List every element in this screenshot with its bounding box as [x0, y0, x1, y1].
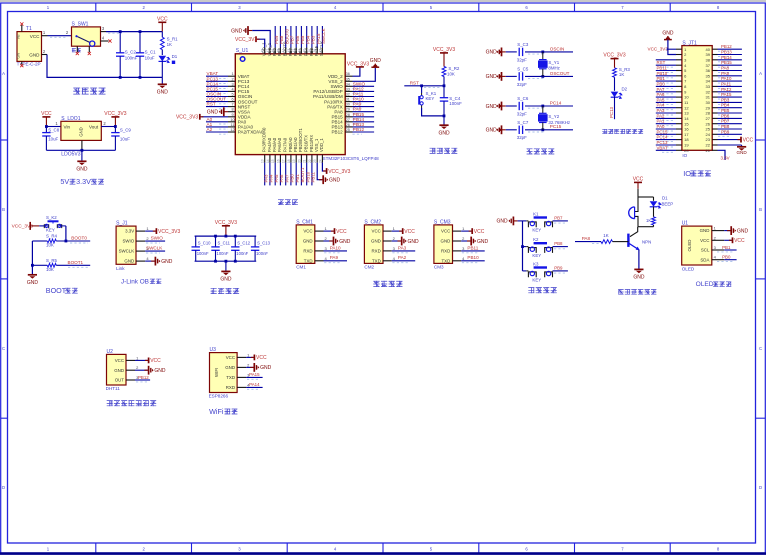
svg-text:T1: T1: [26, 26, 32, 32]
svg-text:VCC: VCC: [734, 238, 745, 244]
svg-text:WIFI: WIFI: [214, 368, 219, 377]
power port VCC_3V3 (bottom of U1): [323, 170, 327, 172]
svg-text:PA7/A0: PA7/A0: [283, 137, 288, 152]
svg-text:S_C10: S_C10: [198, 240, 211, 245]
U1 right pin (PB12): [345, 131, 352, 133]
svg-text:RST: RST: [657, 60, 666, 65]
svg-text:10uF: 10uF: [48, 137, 58, 142]
svg-text:VCC_3V3: VCC_3V3: [347, 61, 369, 67]
svg-text:VCC_3V3: VCC_3V3: [176, 115, 198, 121]
net label PB6 (JT1 right): [718, 117, 742, 119]
svg-text:PA4: PA4: [657, 103, 666, 108]
svg-text:PB5: PB5: [721, 108, 730, 113]
svg-text:PB8: PB8: [554, 241, 563, 246]
JT1 left pin 12: [676, 107, 682, 109]
U1 top pin (PB6): [295, 48, 297, 54]
svg-text:PB12: PB12: [331, 130, 343, 135]
svg-text:GND: GND: [231, 28, 243, 34]
svg-text:38: 38: [313, 49, 317, 53]
svg-text:GND: GND: [408, 239, 420, 245]
T1 bottom-left no-ERC cross: [21, 61, 23, 64]
svg-text:32: 32: [346, 93, 350, 97]
svg-text:A: A: [759, 71, 762, 76]
svg-text:PA3: PA3: [398, 245, 407, 250]
svg-text:D2: D2: [622, 86, 628, 91]
svg-text:VCC: VCC: [404, 229, 415, 235]
svg-text:KEY: KEY: [532, 227, 541, 232]
wire/net label PC14: [206, 85, 228, 87]
svg-text:PB14: PB14: [721, 55, 732, 60]
LED D2 (indicator): [614, 77, 616, 91]
svg-text:40: 40: [303, 49, 307, 53]
svg-text:PC14: PC14: [657, 135, 669, 140]
svg-text:47: 47: [266, 49, 270, 53]
svg-text:43: 43: [287, 49, 291, 53]
U1 bottom pin (PB0/A0): [290, 155, 292, 163]
svg-text:GND: GND: [154, 368, 166, 374]
filter top rail: [195, 235, 257, 237]
net label PA15 (JT1 right): [718, 96, 742, 98]
svg-text:PA11: PA11: [721, 81, 732, 86]
caption 串口电路: [373, 281, 379, 287]
U1 right pin (PB13): [345, 126, 352, 128]
wire OLED pin4 net label PB0: [724, 259, 736, 261]
svg-text:PB12: PB12: [353, 127, 365, 132]
svg-text:NPN: NPN: [642, 240, 651, 245]
wire with vertical net label PC13: [614, 97, 616, 120]
svg-text:GND: GND: [225, 365, 235, 370]
wire DHT11 pin1 to VCC: [135, 359, 148, 361]
JT1 right pin 23: [712, 139, 717, 141]
top/bottom zone separators and numbers: [95, 3, 97, 12]
svg-text:S_C12: S_C12: [237, 240, 250, 245]
svg-text:VCC: VCC: [150, 358, 161, 364]
U1 bottom pin (PB11/RX): [311, 155, 313, 163]
svg-text:GND: GND: [370, 58, 382, 64]
LED D1: [161, 50, 163, 55]
ground GND (crystal row PC14): [499, 105, 501, 107]
push button K2: [523, 246, 527, 248]
svg-text:PA6/A0: PA6/A0: [277, 137, 282, 152]
connector CM3 body: [434, 225, 453, 264]
JT1 left pin 3: [676, 59, 682, 61]
svg-text:VCC: VCC: [633, 176, 644, 182]
U1 top pin (PA15): [316, 48, 318, 54]
wire/net label OSCIN: [206, 96, 228, 98]
net label PA9 (JT1 right): [718, 75, 742, 77]
net label PB4 (JT1 right): [718, 107, 742, 109]
push button K3: [523, 270, 527, 272]
svg-text:GND: GND: [441, 239, 451, 244]
svg-text:PA12: PA12: [721, 87, 732, 92]
JT1 right pin 32: [712, 91, 717, 93]
wire CM1 pin4 net label PA9: [324, 260, 348, 262]
svg-text:S_J1: S_J1: [116, 221, 128, 227]
svg-text:GND: GND: [700, 228, 710, 233]
svg-text:PB7: PB7: [721, 119, 730, 124]
wire/net label A2: [206, 131, 228, 133]
ground GND power circuit: [158, 83, 167, 85]
svg-text:4: 4: [231, 87, 233, 91]
svg-text:S_C8: S_C8: [48, 127, 60, 132]
JT1 right pin 39: [712, 54, 717, 56]
wire CM3 pin4 net label PB10: [461, 260, 485, 262]
svg-text:32pF: 32pF: [517, 111, 527, 116]
JT1 left pin 13: [676, 112, 682, 114]
wire/net label PB11 (bottom): [311, 163, 313, 186]
JT1 right pin 27: [712, 117, 717, 119]
wire DHT11 pin2 to GND: [135, 369, 148, 371]
wire CM3 pin1 to VCC: [461, 230, 471, 232]
svg-text:K2: K2: [533, 237, 539, 242]
net label PB8 (JT1 right): [718, 128, 742, 130]
wire CM2 pin1 to VCC: [392, 230, 402, 232]
svg-text:25: 25: [706, 127, 711, 132]
svg-text:VCC: VCC: [336, 229, 347, 235]
svg-text:VCC: VCC: [303, 229, 312, 234]
wire VDD_3 to VCC_3V3 (bottom right of U1): [322, 163, 325, 171]
JT1 right pin 40: [712, 48, 717, 50]
svg-text:26: 26: [706, 121, 711, 126]
svg-text:S_R4: S_R4: [46, 233, 58, 238]
U1 right pin (PA12/USB/DP): [345, 90, 352, 92]
svg-text:12: 12: [230, 128, 234, 132]
wire/net label PA8 (right): [353, 111, 375, 113]
svg-text:VCC_3V3: VCC_3V3: [235, 37, 257, 43]
svg-text:VCC_3V3: VCC_3V3: [328, 169, 350, 175]
svg-text:29: 29: [346, 108, 350, 112]
wire/net label PC13: [206, 80, 228, 82]
JT1 left pin 5: [676, 70, 682, 72]
U1 left pin 5 (OSCIN): [228, 96, 235, 98]
U1 left pin 10 (PA0): [228, 121, 235, 123]
U1 right pin (PA10/RX): [345, 101, 352, 103]
power port VCC_3V3 (indicator): [611, 58, 619, 60]
JT1 left pin 10: [676, 96, 682, 98]
svg-text:A2: A2: [207, 127, 213, 132]
svg-text:S_R2: S_R2: [448, 66, 460, 71]
wire/net label PB4 (top): [306, 26, 308, 48]
svg-text:10K: 10K: [46, 242, 54, 247]
JT1 left pin 11: [676, 101, 682, 103]
svg-text:PA15: PA15: [249, 372, 260, 377]
power port VCC_3V3 (filter): [222, 225, 230, 227]
emitter wire to GND (alarm): [638, 250, 640, 269]
U1 bottom pin (PB2/BOOT1): [300, 155, 302, 163]
svg-text:RXD: RXD: [303, 249, 312, 254]
U1 top pin (SWCLK): [321, 48, 323, 54]
svg-text:GND: GND: [371, 239, 381, 244]
U1 bottom pin (PA4/A0): [269, 155, 271, 163]
svg-text:3.3V: 3.3V: [125, 229, 134, 234]
wire/net label PB3 (top): [311, 26, 313, 48]
svg-text:KEY: KEY: [532, 277, 541, 282]
svg-text:CM2: CM2: [364, 265, 374, 270]
U1 right pin (PB15): [345, 116, 352, 118]
wire/net label PA10 (right): [353, 101, 375, 103]
wire/net label PA15 (top): [316, 26, 318, 48]
resistor R2 10K: [442, 67, 446, 77]
svg-text:GND: GND: [486, 128, 498, 134]
wire to net label OSCIN: [525, 51, 573, 53]
svg-text:VCC: VCC: [743, 137, 754, 143]
svg-text:36: 36: [706, 68, 711, 73]
svg-text:14: 14: [684, 116, 689, 121]
U1 right pin (PA8): [345, 111, 352, 113]
svg-text:VCC: VCC: [474, 229, 485, 235]
wire/net label A0: [206, 121, 228, 123]
wire/net label PB14 (right): [353, 121, 375, 123]
svg-text:PA3: PA3: [657, 108, 666, 113]
svg-text:PB6: PB6: [295, 35, 300, 44]
svg-text:PB1: PB1: [295, 174, 300, 183]
svg-text:PB10: PB10: [657, 71, 668, 76]
svg-text:Vout: Vout: [89, 125, 99, 130]
svg-text:100nF: 100nF: [217, 251, 229, 256]
svg-text:8: 8: [231, 108, 233, 112]
svg-text:PB12: PB12: [138, 375, 149, 380]
wire CM3 pin3 net label PB11: [461, 250, 485, 252]
svg-text:PB4: PB4: [305, 35, 310, 44]
wire CM1 pin1 to VCC: [324, 230, 334, 232]
U1 left pin 3 (PC14): [228, 85, 235, 87]
svg-text:GND: GND: [737, 228, 749, 234]
JT1 right pin 30: [712, 101, 717, 103]
svg-text:A: A: [2, 71, 5, 76]
wire CM2 pin4 net label PA2: [392, 260, 416, 262]
wire button to BOOT0 row: [65, 226, 67, 241]
svg-text:22: 22: [308, 159, 312, 163]
wire/net label PB10 (bottom): [306, 163, 308, 186]
U1 bottom pin (VSS_1): [316, 155, 318, 163]
JT1 left pin 4: [676, 64, 682, 66]
svg-text:3: 3: [231, 82, 233, 86]
svg-text:GND: GND: [114, 368, 124, 373]
net label RST wire: [404, 85, 444, 87]
svg-text:24: 24: [318, 159, 322, 163]
svg-text:TXD: TXD: [442, 258, 451, 263]
net label PB5 (JT1 right): [718, 112, 742, 114]
svg-text:PC15: PC15: [550, 124, 562, 129]
svg-text:S_U1: S_U1: [236, 48, 249, 54]
capacitor C8 10uF (LDO input): [45, 127, 47, 133]
wire GND to JT1 pin2: [668, 40, 676, 55]
wire/net label PB9 (top): [274, 26, 276, 48]
svg-text:B: B: [759, 207, 762, 212]
svg-text:10: 10: [230, 118, 234, 122]
push button K1: [523, 220, 527, 222]
U1 top pin (PB5): [300, 48, 302, 54]
capacitor S_C12 100nF (filter): [234, 236, 236, 247]
svg-text:S_CM3: S_CM3: [434, 219, 451, 225]
U1 left pin 9 (VDDA): [228, 116, 235, 118]
svg-text:PA7: PA7: [657, 87, 666, 92]
caption 电源电路: [73, 88, 80, 95]
JT1 left pin 7: [676, 80, 682, 82]
svg-text:VCC: VCC: [441, 229, 450, 234]
svg-text:PC14: PC14: [550, 100, 562, 105]
JT1 right pin 28: [712, 112, 717, 114]
svg-text:38: 38: [706, 57, 711, 62]
svg-text:24: 24: [706, 132, 711, 137]
svg-text:VCC: VCC: [226, 355, 235, 360]
svg-text:20: 20: [684, 148, 689, 153]
svg-text:U1: U1: [682, 221, 689, 227]
wire CM2 pin2 to GND: [392, 240, 401, 242]
U1 left pin 1 (VBAT): [228, 75, 235, 77]
svg-text:PB2/BOOT1: PB2/BOOT1: [298, 128, 303, 152]
svg-text:13: 13: [684, 111, 689, 116]
connector JT1 body: [682, 46, 712, 151]
ground GND LDO: [77, 160, 86, 162]
wire/net label BOOT0 (top): [285, 26, 287, 48]
U1 right pin (SWIO): [345, 85, 352, 87]
svg-text:31: 31: [346, 98, 350, 102]
svg-text:23: 23: [313, 159, 317, 163]
wire/net label SWCLK (top): [321, 26, 323, 48]
svg-text:IO: IO: [682, 153, 687, 158]
transistor Q1 NPN: [630, 227, 638, 237]
JT1 left pin 9: [676, 91, 682, 93]
svg-text:C: C: [2, 346, 5, 351]
capacitor S_C11 100nF (filter): [215, 236, 217, 247]
svg-text:SCL: SCL: [701, 248, 710, 253]
svg-text:35: 35: [706, 73, 711, 78]
svg-text:10uF: 10uF: [120, 137, 130, 142]
svg-text:44: 44: [282, 49, 286, 53]
wire LDO Vout to VCC_3V3: [101, 126, 115, 128]
power port VCC (LDO input): [42, 116, 50, 118]
svg-text:VCC_3V3: VCC_3V3: [603, 53, 625, 59]
svg-text:3.3V: 3.3V: [76, 177, 91, 186]
svg-text:GND: GND: [486, 74, 498, 80]
svg-text:TXD: TXD: [226, 375, 235, 380]
ground GND (alarm): [634, 268, 643, 270]
net label PB7 (JT1 right): [718, 123, 742, 125]
svg-text:PB0: PB0: [722, 255, 731, 260]
wire 3.3V (JT1 pin 21): [718, 150, 726, 160]
wire ESP8266 pin3 net label PA15: [246, 376, 263, 378]
svg-text:PB10: PB10: [467, 255, 479, 260]
svg-text:1: 1: [231, 72, 233, 76]
svg-text:S_Y1: S_Y1: [548, 60, 559, 65]
svg-text:VCC_3V3: VCC_3V3: [648, 47, 669, 52]
svg-text:30: 30: [346, 103, 350, 107]
capacitor S_C13 100nF (filter): [254, 236, 256, 247]
JT1 left pin 20: [676, 149, 682, 151]
U1 left pin 7 (NRST): [228, 106, 235, 108]
wire/net label PB12 (right): [353, 131, 375, 133]
svg-text:GND: GND: [76, 167, 88, 173]
wire J1 pin3 net label SWCLK: [145, 250, 165, 252]
svg-text:33: 33: [706, 84, 711, 89]
ground GND at VSSA: [224, 111, 228, 113]
svg-text:30: 30: [706, 100, 711, 105]
svg-text:GND: GND: [477, 239, 489, 245]
svg-text:20: 20: [297, 159, 301, 163]
wire CM1 pin3 net label PA10: [324, 250, 348, 252]
U1 right pin (VDD_2): [345, 75, 352, 77]
svg-text:34: 34: [706, 79, 711, 84]
connector CM1 body: [296, 225, 315, 264]
svg-text:GND: GND: [220, 277, 232, 283]
side zone separators and letters: [1, 139, 8, 141]
svg-text:PA9: PA9: [721, 71, 730, 76]
bottom thick border line: [0, 552, 766, 555]
svg-text:26: 26: [346, 123, 350, 127]
svg-text:PB4: PB4: [721, 103, 730, 108]
wire/net label PA7 (bottom): [285, 163, 287, 186]
svg-text:39: 39: [706, 52, 711, 57]
svg-text:PA7: PA7: [284, 174, 289, 183]
svg-text:S_JT1: S_JT1: [682, 40, 697, 46]
wire node down to C4: [443, 86, 445, 95]
ground GND (crystal row OSCOUT): [499, 75, 501, 77]
wire and capacitor S_C5 32pF: [506, 75, 517, 77]
JT1 right pin 34: [712, 80, 717, 82]
net label PA11 (JT1 right): [718, 85, 742, 87]
svg-text:PB0: PB0: [657, 81, 666, 86]
power port VCC_3V3 at VDDA: [202, 116, 229, 118]
ground GND (keys): [513, 220, 517, 222]
svg-text:PB7: PB7: [554, 216, 563, 221]
ground GND (crystal row PC15): [499, 129, 501, 131]
capacitor C2 100nF: [119, 32, 121, 53]
svg-text:45: 45: [276, 49, 280, 53]
wire VCC to LDO Vin: [46, 126, 61, 128]
svg-text:PB13: PB13: [721, 50, 732, 55]
ground GND (JT1 right): [718, 144, 742, 146]
svg-text:S_Y2: S_Y2: [548, 114, 559, 119]
regulator LDO1 (LDO5V3): [61, 121, 101, 140]
svg-text:GND: GND: [124, 259, 134, 264]
svg-text:SWIO: SWIO: [122, 239, 134, 244]
crystal Y2 32.768KHz: [542, 106, 544, 113]
svg-text:21: 21: [706, 148, 711, 153]
U1 top pin (VSS_1): [269, 48, 271, 54]
svg-text:3.3V: 3.3V: [721, 155, 730, 160]
svg-text:S_C3: S_C3: [517, 42, 529, 47]
svg-text:PA9: PA9: [330, 255, 339, 260]
svg-text:PC13: PC13: [609, 106, 614, 118]
svg-text:40: 40: [706, 47, 711, 52]
svg-text:46: 46: [271, 49, 275, 53]
U1 bottom pin (PA7/A0): [285, 155, 287, 163]
svg-text:32: 32: [706, 89, 711, 94]
svg-text:100nF: 100nF: [256, 251, 268, 256]
svg-text:S_C11: S_C11: [218, 240, 231, 245]
SW1 bottom stubs with no-ERC crosses: [76, 46, 78, 52]
svg-text:VCC: VCC: [41, 111, 52, 117]
wire/net label A1: [206, 126, 228, 128]
wire CM2 pin3 net label PA3: [392, 250, 416, 252]
svg-text:S_R5: S_R5: [46, 258, 58, 263]
svg-text:C: C: [759, 346, 762, 351]
svg-text:PB1: PB1: [657, 76, 666, 81]
svg-text:S_C13: S_C13: [257, 240, 270, 245]
svg-text:WiFi: WiFi: [209, 407, 224, 416]
U1 bottom pin (VDD_1): [321, 155, 323, 163]
U1 top pin (PB7): [290, 48, 292, 54]
U1 left pin 11 (PA1/A0): [228, 126, 235, 128]
svg-text:17: 17: [282, 159, 286, 163]
U1 pin-1 indicator ring: [240, 57, 245, 62]
svg-text:GND: GND: [633, 275, 645, 281]
JT1 right pin 37: [712, 64, 717, 66]
svg-text:14: 14: [266, 159, 270, 163]
svg-text:SWCLK: SWCLK: [119, 249, 135, 254]
svg-text:15: 15: [271, 159, 275, 163]
